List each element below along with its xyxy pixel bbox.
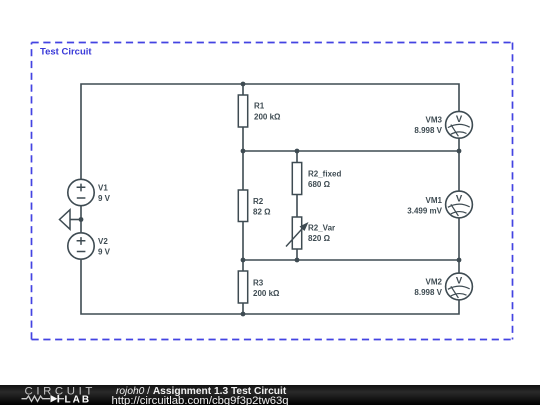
svg-text:820 Ω: 820 Ω (308, 234, 331, 243)
wire middle rail y260 (243, 259, 459, 261)
wire R2 bottom (242, 222, 244, 261)
wire V1-V2 link (80, 206, 82, 232)
svg-text:8.998 V: 8.998 V (414, 288, 442, 297)
wire bottom rail (81, 260, 459, 314)
wire R3 top (242, 260, 244, 271)
svg-text:680 Ω: 680 Ω (308, 180, 331, 189)
wire R2_fixed to R2_Var (296, 195, 298, 218)
svg-text:R2_Var: R2_Var (308, 224, 335, 233)
svg-text:9 V: 9 V (98, 248, 111, 257)
svg-text:http://circuitlab.com/cbg9f3p2: http://circuitlab.com/cbg9f3p2tw63q (112, 395, 289, 405)
ground symbol (60, 210, 71, 230)
node junction rail151 / R2_fixed (295, 149, 300, 154)
svg-text:R3: R3 (253, 279, 264, 288)
voltmeter VM3 (414, 111, 472, 138)
wire R3 bottom (242, 303, 244, 314)
node junction bottom rail / R3 (241, 312, 246, 317)
svg-text:82 Ω: 82 Ω (253, 208, 271, 217)
resistor R2 (238, 190, 271, 222)
node junction rail151 / VM3-VM1 (457, 149, 462, 154)
schematic boundary (dashed blue box) (32, 43, 513, 340)
node junction V1/V2/ground (79, 217, 84, 222)
svg-text:V: V (456, 114, 463, 125)
node junction rail260 / VM1-VM2 (457, 258, 462, 263)
wire VM1 bottom (458, 218, 460, 260)
wire R2 top (242, 151, 244, 190)
svg-text:V: V (456, 194, 463, 205)
potentiometer R2_Var (286, 217, 335, 249)
svg-text:VM3: VM3 (426, 115, 443, 124)
node junction top rail / R1 (241, 82, 246, 87)
wire ground stub (70, 219, 81, 221)
voltmeter VM1 (407, 191, 472, 218)
svg-text:8.998 V: 8.998 V (414, 126, 442, 135)
node junction rail260 / R2-R3 (241, 258, 246, 263)
node junction rail260 / R2_Var (295, 258, 300, 263)
svg-text:9 V: 9 V (98, 194, 111, 203)
wire R1 bottom to rail (242, 127, 244, 151)
svg-text:200 kΩ: 200 kΩ (253, 289, 280, 298)
wire middle rail y151 (243, 150, 459, 152)
CircuitLab logo resistor zigzag (22, 396, 51, 401)
svg-text:VM2: VM2 (426, 277, 443, 286)
svg-text:R1: R1 (254, 102, 265, 111)
resistor R2_fixed (292, 163, 341, 195)
node junction rail151 / R1-R2 (241, 149, 246, 154)
voltmeter VM2 (414, 273, 472, 300)
resistor R3 (238, 271, 280, 303)
wire R2_Var bottom (296, 249, 298, 260)
svg-text:V: V (456, 276, 463, 287)
wire R1 column (242, 84, 244, 95)
svg-text:VM1: VM1 (426, 196, 443, 205)
voltage source V2 (68, 233, 111, 259)
svg-text:3.499 mV: 3.499 mV (407, 207, 442, 216)
wire R2_fixed top (296, 151, 298, 163)
wire VM1 top (458, 151, 460, 191)
voltage source V1 (68, 179, 111, 205)
svg-text:R2: R2 (253, 197, 264, 206)
svg-text:Test Circuit: Test Circuit (40, 47, 92, 58)
svg-text:R2_fixed: R2_fixed (308, 170, 341, 179)
svg-text:V2: V2 (98, 237, 108, 246)
wire VM3 bottom (458, 138, 460, 151)
wire top rail (81, 84, 459, 179)
CircuitLab logo diode (51, 395, 58, 402)
svg-text:LAB: LAB (65, 394, 92, 405)
wire VM2 top (458, 260, 460, 273)
svg-text:200 kΩ: 200 kΩ (254, 113, 281, 122)
svg-text:V1: V1 (98, 184, 108, 193)
resistor R1 (238, 95, 281, 127)
